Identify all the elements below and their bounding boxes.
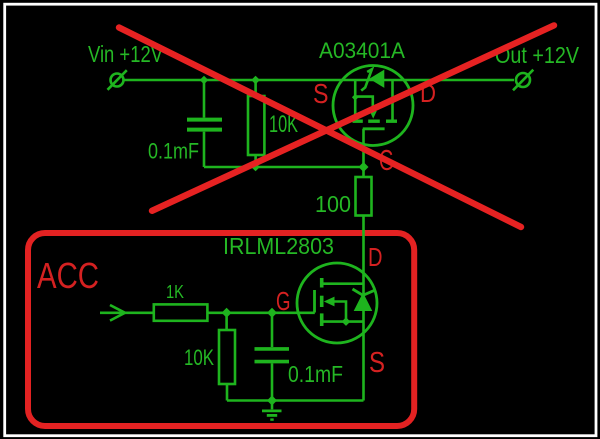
svg-text:1K: 1K [166,282,184,302]
svg-text:G: G [276,286,291,316]
svg-text:100: 100 [315,191,351,217]
svg-text:ACC: ACC [37,255,99,296]
svg-text:0.1mF: 0.1mF [148,139,199,164]
svg-text:10K: 10K [184,345,214,370]
svg-text:A03401A: A03401A [319,38,405,63]
svg-text:IRLML2803: IRLML2803 [223,233,334,259]
svg-text:0.1mF: 0.1mF [288,361,343,387]
svg-text:S: S [369,347,385,379]
svg-text:D: D [368,242,383,272]
svg-text:S: S [313,78,329,109]
